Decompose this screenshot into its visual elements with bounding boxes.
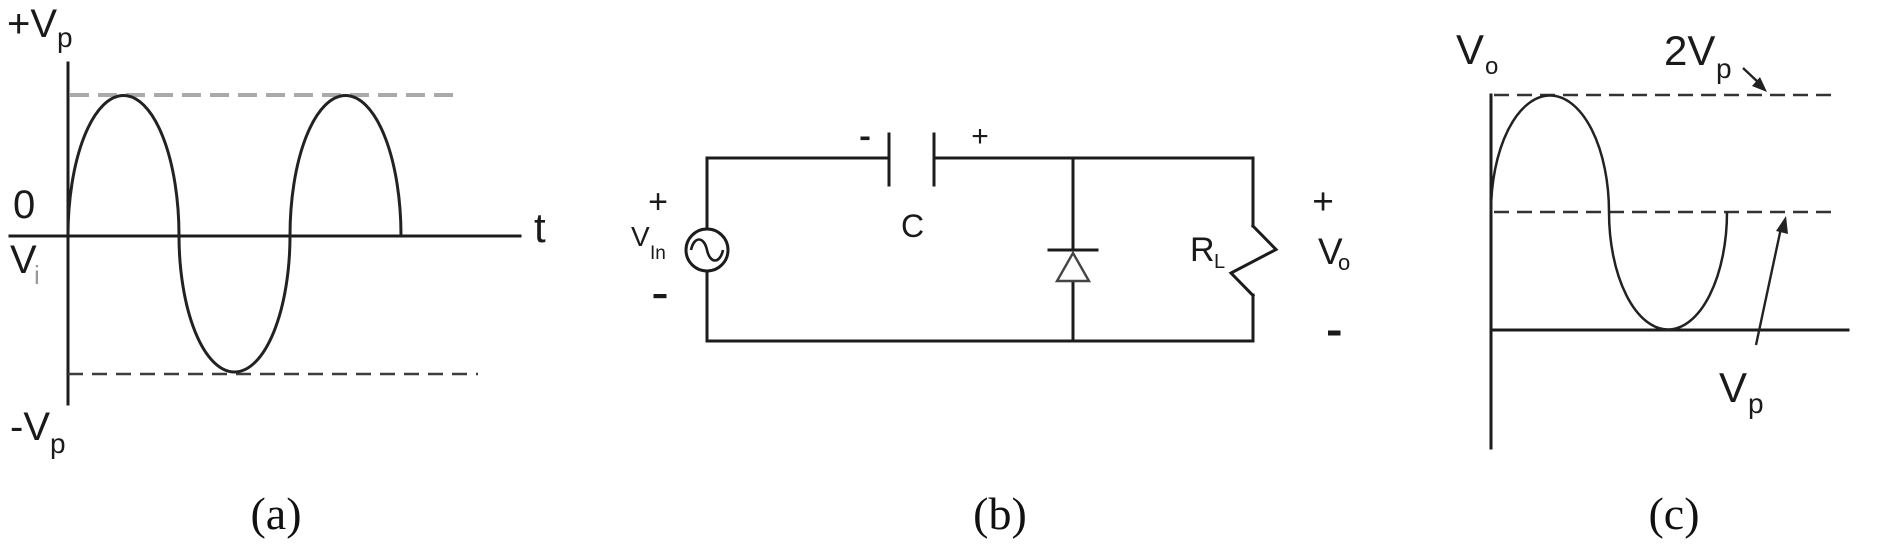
svg-text:V: V bbox=[1456, 26, 1484, 73]
svg-text:(c): (c) bbox=[1648, 488, 1699, 539]
svg-text:(b): (b) bbox=[973, 488, 1027, 539]
svg-text:p: p bbox=[57, 22, 73, 53]
svg-text:2V: 2V bbox=[1664, 27, 1715, 74]
svg-text:V: V bbox=[10, 238, 37, 282]
svg-text:+: + bbox=[1312, 181, 1334, 222]
svg-text:R: R bbox=[1190, 231, 1215, 269]
svg-text:+: + bbox=[971, 120, 989, 153]
svg-text:i: i bbox=[34, 260, 40, 290]
svg-text:V: V bbox=[1719, 364, 1747, 411]
svg-text:In: In bbox=[650, 243, 666, 264]
svg-text:o: o bbox=[1338, 250, 1350, 275]
svg-text:0: 0 bbox=[13, 183, 35, 227]
svg-text:p: p bbox=[50, 428, 66, 459]
svg-text:t: t bbox=[534, 204, 546, 251]
svg-text:p: p bbox=[1716, 53, 1732, 84]
svg-text:-V: -V bbox=[10, 405, 50, 449]
svg-text:p: p bbox=[1748, 388, 1764, 419]
svg-text:C: C bbox=[901, 208, 924, 244]
svg-text:V: V bbox=[631, 221, 650, 252]
svg-text:L: L bbox=[1214, 251, 1225, 273]
svg-text:o: o bbox=[1485, 53, 1498, 80]
svg-text:+V: +V bbox=[7, 2, 57, 46]
svg-text:+: + bbox=[648, 183, 668, 221]
svg-text:(a): (a) bbox=[250, 488, 301, 539]
